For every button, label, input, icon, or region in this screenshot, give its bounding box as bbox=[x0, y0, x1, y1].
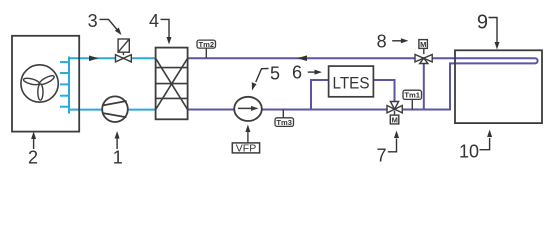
flow arrow right on cyan pipe bbox=[89, 56, 99, 62]
unit 2: air handling unit box bbox=[12, 36, 79, 132]
VFP: variable frequency pump control box bbox=[232, 125, 259, 155]
wire: LTES right leg to valve 7 top port bbox=[373, 80, 395, 103]
label 7 with leader arrow bbox=[376, 131, 399, 166]
wire: purple supply pipe top (HX to tank coil) bbox=[188, 57, 455, 59]
wire: cyan return pipe bottom (coil to HX) bbox=[69, 109, 156, 111]
sensor Tm3: temperature sensor label bbox=[275, 110, 294, 127]
svg-text:Tm3: Tm3 bbox=[276, 118, 292, 127]
wire: riser to tank coil bbox=[450, 63, 455, 110]
label 10 with leader arrow bbox=[459, 130, 492, 162]
label 9 with leader arrow bbox=[477, 12, 500, 50]
svg-text:LTES: LTES bbox=[333, 74, 370, 93]
coil E2: immersed coil in tank 10 bbox=[455, 58, 538, 63]
svg-text:9: 9 bbox=[477, 12, 488, 34]
LTES: latent thermal energy storage box bbox=[329, 66, 374, 97]
svg-text:10: 10 bbox=[459, 142, 479, 162]
svg-text:4: 4 bbox=[149, 11, 159, 31]
wire: cyan supply pipe top (coil to HX) bbox=[69, 57, 156, 59]
heat exchanger HX4: plate heat exchanger bbox=[156, 48, 188, 120]
label 2 with arrow bbox=[28, 132, 38, 168]
sensor Tm2: temperature sensor label bbox=[197, 40, 216, 58]
coil E1: finned coil inside unit 2 bbox=[60, 57, 69, 114]
label 1 with arrow bbox=[113, 131, 123, 168]
flow arrow left on purple pipe bbox=[297, 55, 307, 61]
pump Q1: fan/blower 1 bbox=[102, 96, 128, 122]
label 6 with arrow bbox=[292, 63, 322, 83]
valve V8: three-way valve with motor above bbox=[415, 40, 432, 64]
svg-text:6: 6 bbox=[292, 63, 302, 83]
fan: fan impeller in unit 2 bbox=[21, 65, 58, 102]
label 8 with arrow bbox=[377, 32, 409, 52]
svg-text:Tm1: Tm1 bbox=[404, 91, 420, 100]
label 5 with leader arrow bbox=[252, 64, 280, 91]
svg-text:1: 1 bbox=[113, 148, 123, 168]
pump P5: circulating pump bbox=[234, 97, 262, 121]
svg-text:5: 5 bbox=[270, 64, 280, 84]
svg-text:VFP: VFP bbox=[236, 143, 256, 155]
wire: LTES left leg bbox=[311, 80, 329, 110]
svg-text:3: 3 bbox=[88, 11, 98, 31]
svg-text:M: M bbox=[420, 40, 426, 49]
svg-text:7: 7 bbox=[376, 146, 386, 166]
label 3 with leader arrow bbox=[88, 11, 122, 35]
svg-text:M: M bbox=[392, 115, 398, 124]
tank 10: storage tank bbox=[455, 50, 542, 123]
valve V7: three-way valve with motor below bbox=[387, 102, 402, 124]
wire: valve 8 bottom port down-leg bbox=[423, 62, 425, 110]
valve V3: two-way valve with actuator bbox=[116, 39, 132, 62]
svg-text:2: 2 bbox=[28, 148, 38, 168]
label 4 with leader arrow bbox=[149, 11, 172, 45]
sensor Tm1: temperature sensor label bbox=[403, 90, 422, 109]
svg-text:Tm2: Tm2 bbox=[198, 40, 214, 49]
svg-text:8: 8 bbox=[377, 32, 387, 52]
wire: purple return pipe bottom (HX to riser) bbox=[188, 109, 450, 111]
